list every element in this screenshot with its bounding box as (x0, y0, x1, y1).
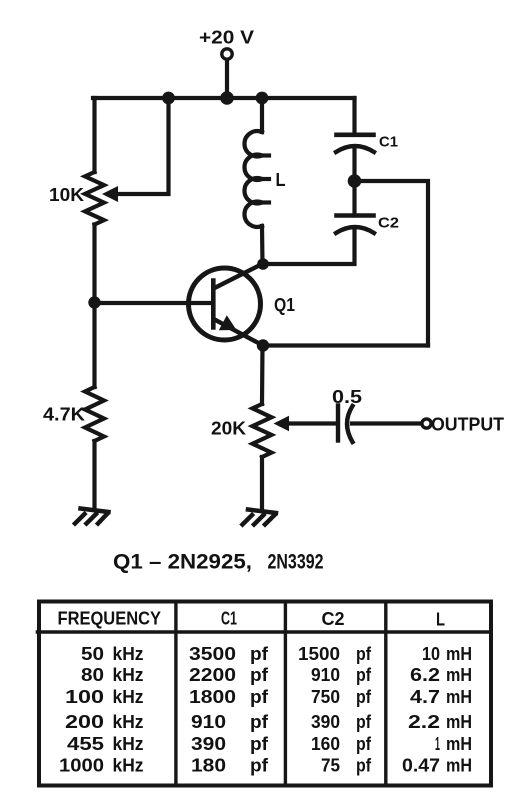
svg-text:kHz: kHz (113, 644, 144, 664)
table row 1000 kHz (59, 756, 472, 776)
wire feedback right branch (355, 181, 429, 346)
svg-text:80: 80 (81, 665, 104, 685)
svg-text:pf: pf (356, 712, 372, 732)
label Q1 (274, 295, 295, 315)
svg-text:OUTPUT: OUTPUT (431, 415, 504, 435)
svg-text:4.7: 4.7 (410, 687, 440, 707)
table row 200 kHz (65, 712, 472, 732)
wire capacitor to output terminal (352, 421, 422, 425)
svg-text:L: L (436, 610, 445, 630)
svg-text:C1: C1 (379, 134, 398, 151)
label +20V (199, 28, 254, 48)
svg-text:pf: pf (356, 644, 372, 664)
table column line 1 (174, 602, 177, 786)
wire +20V drop to bus (225, 61, 229, 99)
transistor Q1 (189, 264, 264, 346)
label 10K (49, 185, 84, 205)
ground left (75, 509, 109, 524)
wire C1 to mid node (352, 147, 356, 181)
svg-text:C1: C1 (221, 609, 237, 629)
wire base lead (95, 301, 212, 305)
junction dot emitter node (257, 339, 269, 351)
table frame (39, 602, 491, 786)
svg-text:mH: mH (446, 687, 472, 707)
table header row (58, 609, 446, 630)
wire 20K to ground (260, 457, 264, 510)
potentiometer 20K body (253, 404, 272, 457)
svg-text:50: 50 (81, 644, 104, 664)
svg-text:10: 10 (422, 644, 440, 664)
svg-text:4.7K: 4.7K (43, 405, 85, 425)
junction dot C1/C2 node (348, 174, 362, 188)
svg-text:0.5: 0.5 (332, 387, 362, 407)
wire mid node to C2 (352, 181, 356, 216)
label 4.7K (43, 405, 85, 425)
svg-text:390: 390 (311, 712, 340, 732)
wire base node down to 4.7K (92, 303, 96, 387)
table row 455 kHz (67, 734, 472, 754)
svg-text:pf: pf (250, 756, 269, 776)
label 0.5 (332, 387, 362, 407)
table column line 3 (384, 602, 387, 786)
svg-text:200: 200 (65, 712, 104, 732)
junction dot bus/wiper return (162, 92, 175, 105)
svg-text:Q1: Q1 (274, 295, 295, 315)
table row 80 kHz (81, 665, 472, 685)
svg-text:75: 75 (321, 756, 340, 776)
svg-text:pf: pf (250, 665, 269, 685)
svg-text:mH: mH (446, 734, 472, 754)
wire C2 down then to collector node (263, 228, 355, 264)
svg-text:pf: pf (356, 665, 372, 685)
resistor R 4.7K (85, 387, 104, 441)
svg-text:kHz: kHz (113, 756, 144, 776)
svg-text:1: 1 (435, 734, 440, 754)
svg-text:kHz: kHz (113, 712, 144, 732)
svg-text:pf: pf (356, 756, 372, 776)
label C2 (378, 215, 399, 232)
svg-text:kHz: kHz (113, 687, 144, 707)
svg-text:pf: pf (250, 687, 269, 707)
svg-text:10K: 10K (49, 185, 84, 205)
terminal OUTPUT (422, 419, 431, 428)
svg-text:455: 455 (67, 734, 104, 754)
table column line 2 (284, 602, 287, 786)
table header separator (38, 630, 491, 634)
svg-text:pf: pf (250, 734, 269, 754)
wire top bus (93, 96, 355, 100)
svg-text:910: 910 (191, 712, 226, 732)
label L (276, 170, 286, 190)
10K wiper arrow (102, 186, 118, 202)
wire emitter node right to feedback (263, 343, 428, 347)
junction dot base node (88, 296, 100, 308)
wire inductor bottom to collector node (260, 226, 265, 264)
svg-text:160: 160 (311, 734, 340, 754)
20K wiper arrow (274, 416, 290, 431)
svg-text:2.2: 2.2 (408, 712, 440, 732)
svg-text:1500: 1500 (298, 644, 340, 664)
svg-text:1800: 1800 (189, 687, 236, 707)
wire 4.7K to ground (92, 441, 96, 509)
inductor L coil (244, 131, 269, 227)
terminal +20V (222, 49, 232, 59)
label 20K (211, 419, 246, 439)
junction dot collector node (257, 258, 269, 270)
svg-text:kHz: kHz (113, 734, 144, 754)
svg-text:mH: mH (446, 756, 472, 776)
wire bus corner down to C1 (352, 98, 356, 133)
svg-text:6.2: 6.2 (410, 665, 440, 685)
label OUTPUT (431, 415, 504, 435)
wire bus to inductor top (260, 98, 264, 132)
caption Q1 part numbers (113, 551, 324, 574)
label C1 (379, 134, 398, 151)
capacitor 0.5 (338, 406, 353, 443)
svg-text:pf: pf (356, 687, 372, 707)
svg-text:pf: pf (356, 734, 372, 754)
svg-text:mH: mH (446, 712, 472, 732)
svg-text:750: 750 (311, 687, 340, 707)
svg-text:1000: 1000 (59, 756, 104, 776)
svg-text:390: 390 (191, 734, 226, 754)
junction dot bus/+20V (220, 91, 234, 105)
table row 100 kHz (65, 687, 472, 707)
junction dot bus/inductor (256, 92, 269, 105)
svg-text:pf: pf (250, 644, 269, 664)
ground right (243, 510, 277, 525)
svg-text:pf: pf (250, 712, 269, 732)
svg-text:3500: 3500 (189, 644, 236, 664)
svg-text:180: 180 (191, 756, 226, 776)
svg-text:C2: C2 (378, 215, 399, 232)
svg-text:2N3392: 2N3392 (268, 551, 324, 574)
wire 10K wiper return to bus (116, 98, 169, 194)
svg-text:0.47: 0.47 (402, 756, 440, 776)
capacitor C1 (336, 135, 374, 152)
svg-text:L: L (276, 170, 286, 190)
wire 20K wiper to capacitor (287, 421, 335, 425)
svg-text:+20 V: +20 V (199, 28, 254, 48)
table row 50 kHz (81, 644, 472, 664)
svg-text:100: 100 (65, 687, 104, 707)
wire emitter node down to 20K (260, 346, 265, 405)
potentiometer 10K body (85, 172, 104, 225)
svg-text:FREQUENCY: FREQUENCY (58, 609, 162, 629)
svg-text:20K: 20K (211, 419, 246, 439)
svg-text:kHz: kHz (113, 665, 144, 685)
svg-text:mH: mH (446, 644, 472, 664)
wire bus left corner down to 10K (92, 98, 96, 172)
svg-text:mH: mH (446, 665, 472, 685)
svg-text:910: 910 (311, 665, 340, 685)
capacitor C2 (336, 216, 374, 234)
svg-text:Q1 – 2N2925,: Q1 – 2N2925, (113, 551, 252, 574)
wire 10K bottom to base node (92, 225, 96, 304)
svg-text:C2: C2 (322, 609, 345, 629)
svg-text:2200: 2200 (189, 665, 236, 685)
